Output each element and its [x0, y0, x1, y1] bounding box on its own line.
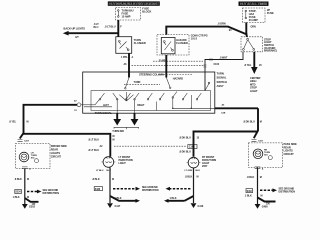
- fuse STOP-HAZ 20 AMP: [245, 9, 258, 22]
- svg-text:G302: G302: [29, 206, 36, 209]
- svg-text:.8 BLK: .8 BLK: [14, 178, 22, 181]
- svg-text:M: M: [113, 135, 115, 138]
- passenger side rear connector: [252, 139, 264, 142]
- mechanical link dashes: [124, 83, 160, 85]
- splice S234: [15, 189, 59, 195]
- wire hazard flasher to switch: [165, 55, 167, 78]
- RH front park/turn light: [187, 156, 217, 168]
- svg-text:.8 DK BLU: .8 DK BLU: [243, 121, 255, 124]
- svg-text:LIGHT: LIGHT: [119, 162, 127, 165]
- wire from turn fuse down: [117, 20, 119, 37]
- svg-text:.8 BLK: .8 BLK: [185, 176, 193, 179]
- svg-text:LT GRN: LT GRN: [185, 170, 193, 172]
- stop wire to turn switch: [205, 52, 243, 91]
- LH rear lamp connector: [18, 139, 30, 142]
- svg-text:BLOCK: BLOCK: [142, 9, 151, 13]
- fuse TURN-B/U 15 AMP: [118, 9, 134, 19]
- LH rear ground wire: [14, 167, 31, 205]
- svg-text:TURN SIGNAL: TURN SIGNAL: [95, 111, 113, 115]
- ground G117: [107, 203, 121, 208]
- svg-text:M: M: [27, 120, 29, 123]
- svg-text:STEERING COLUMN: STEERING COLUMN: [139, 72, 164, 76]
- splice S402: [246, 188, 295, 194]
- fuse panel dashed box: [243, 8, 266, 23]
- banner HOT IN RUN BULB TEST OR START: [108, 1, 160, 5]
- svg-text:1 BLK: 1 BLK: [170, 197, 177, 200]
- svg-text:.8 BLK: .8 BLK: [92, 178, 100, 181]
- svg-text:A/T: A/T: [75, 36, 79, 39]
- banner HOT AT ALL TIMES: [239, 2, 269, 7]
- wire flasher to switch: [128, 53, 130, 77]
- stop blade: [205, 84, 209, 91]
- svg-text:SIG: SIG: [31, 158, 35, 160]
- svg-text:REAR: REAR: [51, 148, 58, 152]
- svg-text:M: M: [112, 178, 114, 181]
- svg-text:HOT AT ALL TIMES: HOT AT ALL TIMES: [240, 2, 268, 6]
- svg-text:FLASHER: FLASHER: [134, 41, 146, 45]
- svg-text:REAR: REAR: [284, 145, 291, 149]
- svg-text:LIGHTS: LIGHTS: [284, 149, 294, 153]
- svg-text:FLASHER: FLASHER: [176, 42, 188, 45]
- svg-text:15 AMP: 15 AMP: [122, 15, 131, 19]
- hazard flasher: [161, 38, 188, 54]
- ground G400: [255, 204, 269, 209]
- hazard blade: [166, 78, 183, 89]
- svg-text:M: M: [261, 194, 263, 197]
- svg-text:ORN: ORN: [251, 25, 256, 28]
- svg-text:M: M: [260, 121, 262, 124]
- svg-text:C100: C100: [214, 63, 220, 66]
- svg-text:1 BLK: 1 BLK: [13, 196, 20, 199]
- LH front ground wire: [92, 167, 114, 203]
- turn/hazard switch box: [83, 72, 215, 113]
- svg-text:HOT IN RUN, BULB TEST OR START: HOT IN RUN, BULB TEST OR START: [109, 2, 160, 6]
- svg-text:C2B: C2B: [221, 113, 226, 115]
- switch contacts: [99, 92, 201, 101]
- svg-text:DISTRIBUTION: DISTRIBUTION: [279, 191, 296, 194]
- svg-text:W/BRAKE): W/BRAKE): [264, 49, 277, 53]
- svg-text:TURN: TURN: [134, 81, 141, 84]
- svg-text:SIG: SIG: [264, 155, 268, 157]
- svg-text:S234: S234: [15, 191, 21, 194]
- svg-text:C100: C100: [189, 146, 195, 149]
- svg-text:M: M: [27, 178, 29, 181]
- svg-text:M: M: [197, 176, 199, 179]
- left output connector C2: [74, 99, 100, 112]
- svg-text:TURN IND: TURN IND: [112, 130, 124, 133]
- svg-text:M: M: [113, 139, 115, 142]
- svg-text:DISTRIBUTION: DISTRIBUTION: [43, 192, 60, 195]
- svg-text:.8 LT BLU: .8 LT BLU: [105, 26, 116, 29]
- svg-text:1 BLK: 1 BLK: [245, 194, 252, 197]
- passenger side rear lights dashed box: [248, 143, 282, 168]
- RH feed: [254, 108, 258, 138]
- svg-text:.8 WHT: .8 WHT: [220, 56, 228, 59]
- svg-text:G400: G400: [262, 206, 269, 209]
- svg-text:S438: S438: [95, 188, 101, 191]
- svg-text:HAZARD: HAZARD: [173, 78, 183, 81]
- svg-text:SIGNAL: SIGNAL: [217, 76, 227, 80]
- svg-text:1 BLK: 1 BLK: [115, 197, 122, 200]
- wire to CHMSL arrow: [244, 52, 262, 93]
- LH rear knee: [20, 133, 24, 139]
- inner switch box: [91, 91, 211, 111]
- splice S438: [94, 186, 191, 192]
- svg-text:1 PPL: 1 PPL: [121, 56, 128, 59]
- svg-text:LT BLU: LT BLU: [96, 170, 104, 172]
- svg-text:LIGHT: LIGHT: [250, 89, 258, 93]
- svg-text:C417: C417: [24, 139, 30, 142]
- svg-text:DRIVER SIDE: DRIVER SIDE: [51, 144, 67, 148]
- svg-text:20 AMP: 20 AMP: [249, 18, 258, 22]
- svg-text:.8 DK BLU: .8 DK BLU: [179, 136, 191, 139]
- svg-text:CIRCUIT: CIRCUIT: [284, 152, 295, 156]
- svg-text:C417: C417: [258, 139, 264, 142]
- fuse block dashed box: [116, 8, 141, 21]
- indicator arrows: [112, 113, 138, 133]
- svg-text:DISTRIBUTION: DISTRIBUTION: [142, 189, 159, 192]
- svg-text:CIRCUIT: CIRCUIT: [51, 154, 62, 158]
- svg-text:RIGHT: RIGHT: [137, 104, 145, 107]
- RH rear ground wire: [247, 167, 264, 205]
- svg-text:BACK-UP LIGHTS: BACK-UP LIGHTS: [64, 26, 86, 30]
- RH front ground wire: [193, 168, 195, 203]
- svg-text:.8 ORN: .8 ORN: [218, 23, 226, 26]
- svg-text:FUSE: FUSE: [267, 11, 274, 15]
- svg-text:.8 LT BLU: .8 LT BLU: [88, 139, 99, 142]
- stop light switch dashed box: [241, 37, 263, 52]
- stop-haz feed wire to hazard flasher: [166, 23, 246, 35]
- hazard contact: [125, 78, 141, 90]
- svg-text:25 BRN: 25 BRN: [159, 60, 168, 63]
- svg-text:LEFT: LEFT: [103, 104, 109, 107]
- internal wiring: [119, 92, 133, 101]
- svg-text:.8 DK BLU: .8 DK BLU: [179, 150, 191, 153]
- svg-text:TURN: TURN: [217, 71, 224, 75]
- svg-text:.8 BLK: .8 BLK: [247, 176, 255, 179]
- ground G116: [191, 203, 204, 208]
- knee between front grounds: [110, 196, 137, 201]
- LH rear knee to right: [25, 198, 39, 202]
- svg-text:G116: G116: [198, 205, 204, 208]
- right output pin: [215, 107, 258, 109]
- svg-text:LIGHTS: LIGHTS: [51, 151, 61, 155]
- svg-text:.8 YEL: .8 YEL: [9, 120, 17, 123]
- svg-text:G117: G117: [115, 205, 121, 208]
- turn flasher C275: [116, 37, 146, 54]
- hazard flasher dashed box: [157, 35, 189, 56]
- svg-text:SWITCH: SWITCH: [217, 80, 227, 84]
- svg-text:M: M: [260, 176, 262, 179]
- svg-text:2057: 2057: [202, 165, 208, 168]
- ground G302: [22, 204, 36, 209]
- svg-text:BLU: BLU: [94, 26, 99, 29]
- RH rear knee to right: [258, 198, 276, 202]
- LH feed bus: [24, 105, 111, 157]
- svg-text:ASSY: ASSY: [217, 84, 224, 88]
- wire arrow to back-up lights: [63, 23, 123, 39]
- LH front park/turn light: [96, 156, 133, 172]
- svg-text:S402: S402: [247, 190, 253, 193]
- driver side rear lights dashed box: [15, 144, 50, 169]
- svg-text:101-2: 101-2: [191, 38, 198, 41]
- svg-text:.8 YEL: .8 YEL: [244, 64, 252, 67]
- svg-text:M: M: [27, 196, 29, 199]
- svg-text:.8 LT BLU: .8 LT BLU: [88, 149, 99, 152]
- wire junction to stop switch: [245, 34, 248, 37]
- svg-text:BLK: BLK: [196, 170, 201, 172]
- svg-text:PASS SIDE: PASS SIDE: [284, 142, 298, 146]
